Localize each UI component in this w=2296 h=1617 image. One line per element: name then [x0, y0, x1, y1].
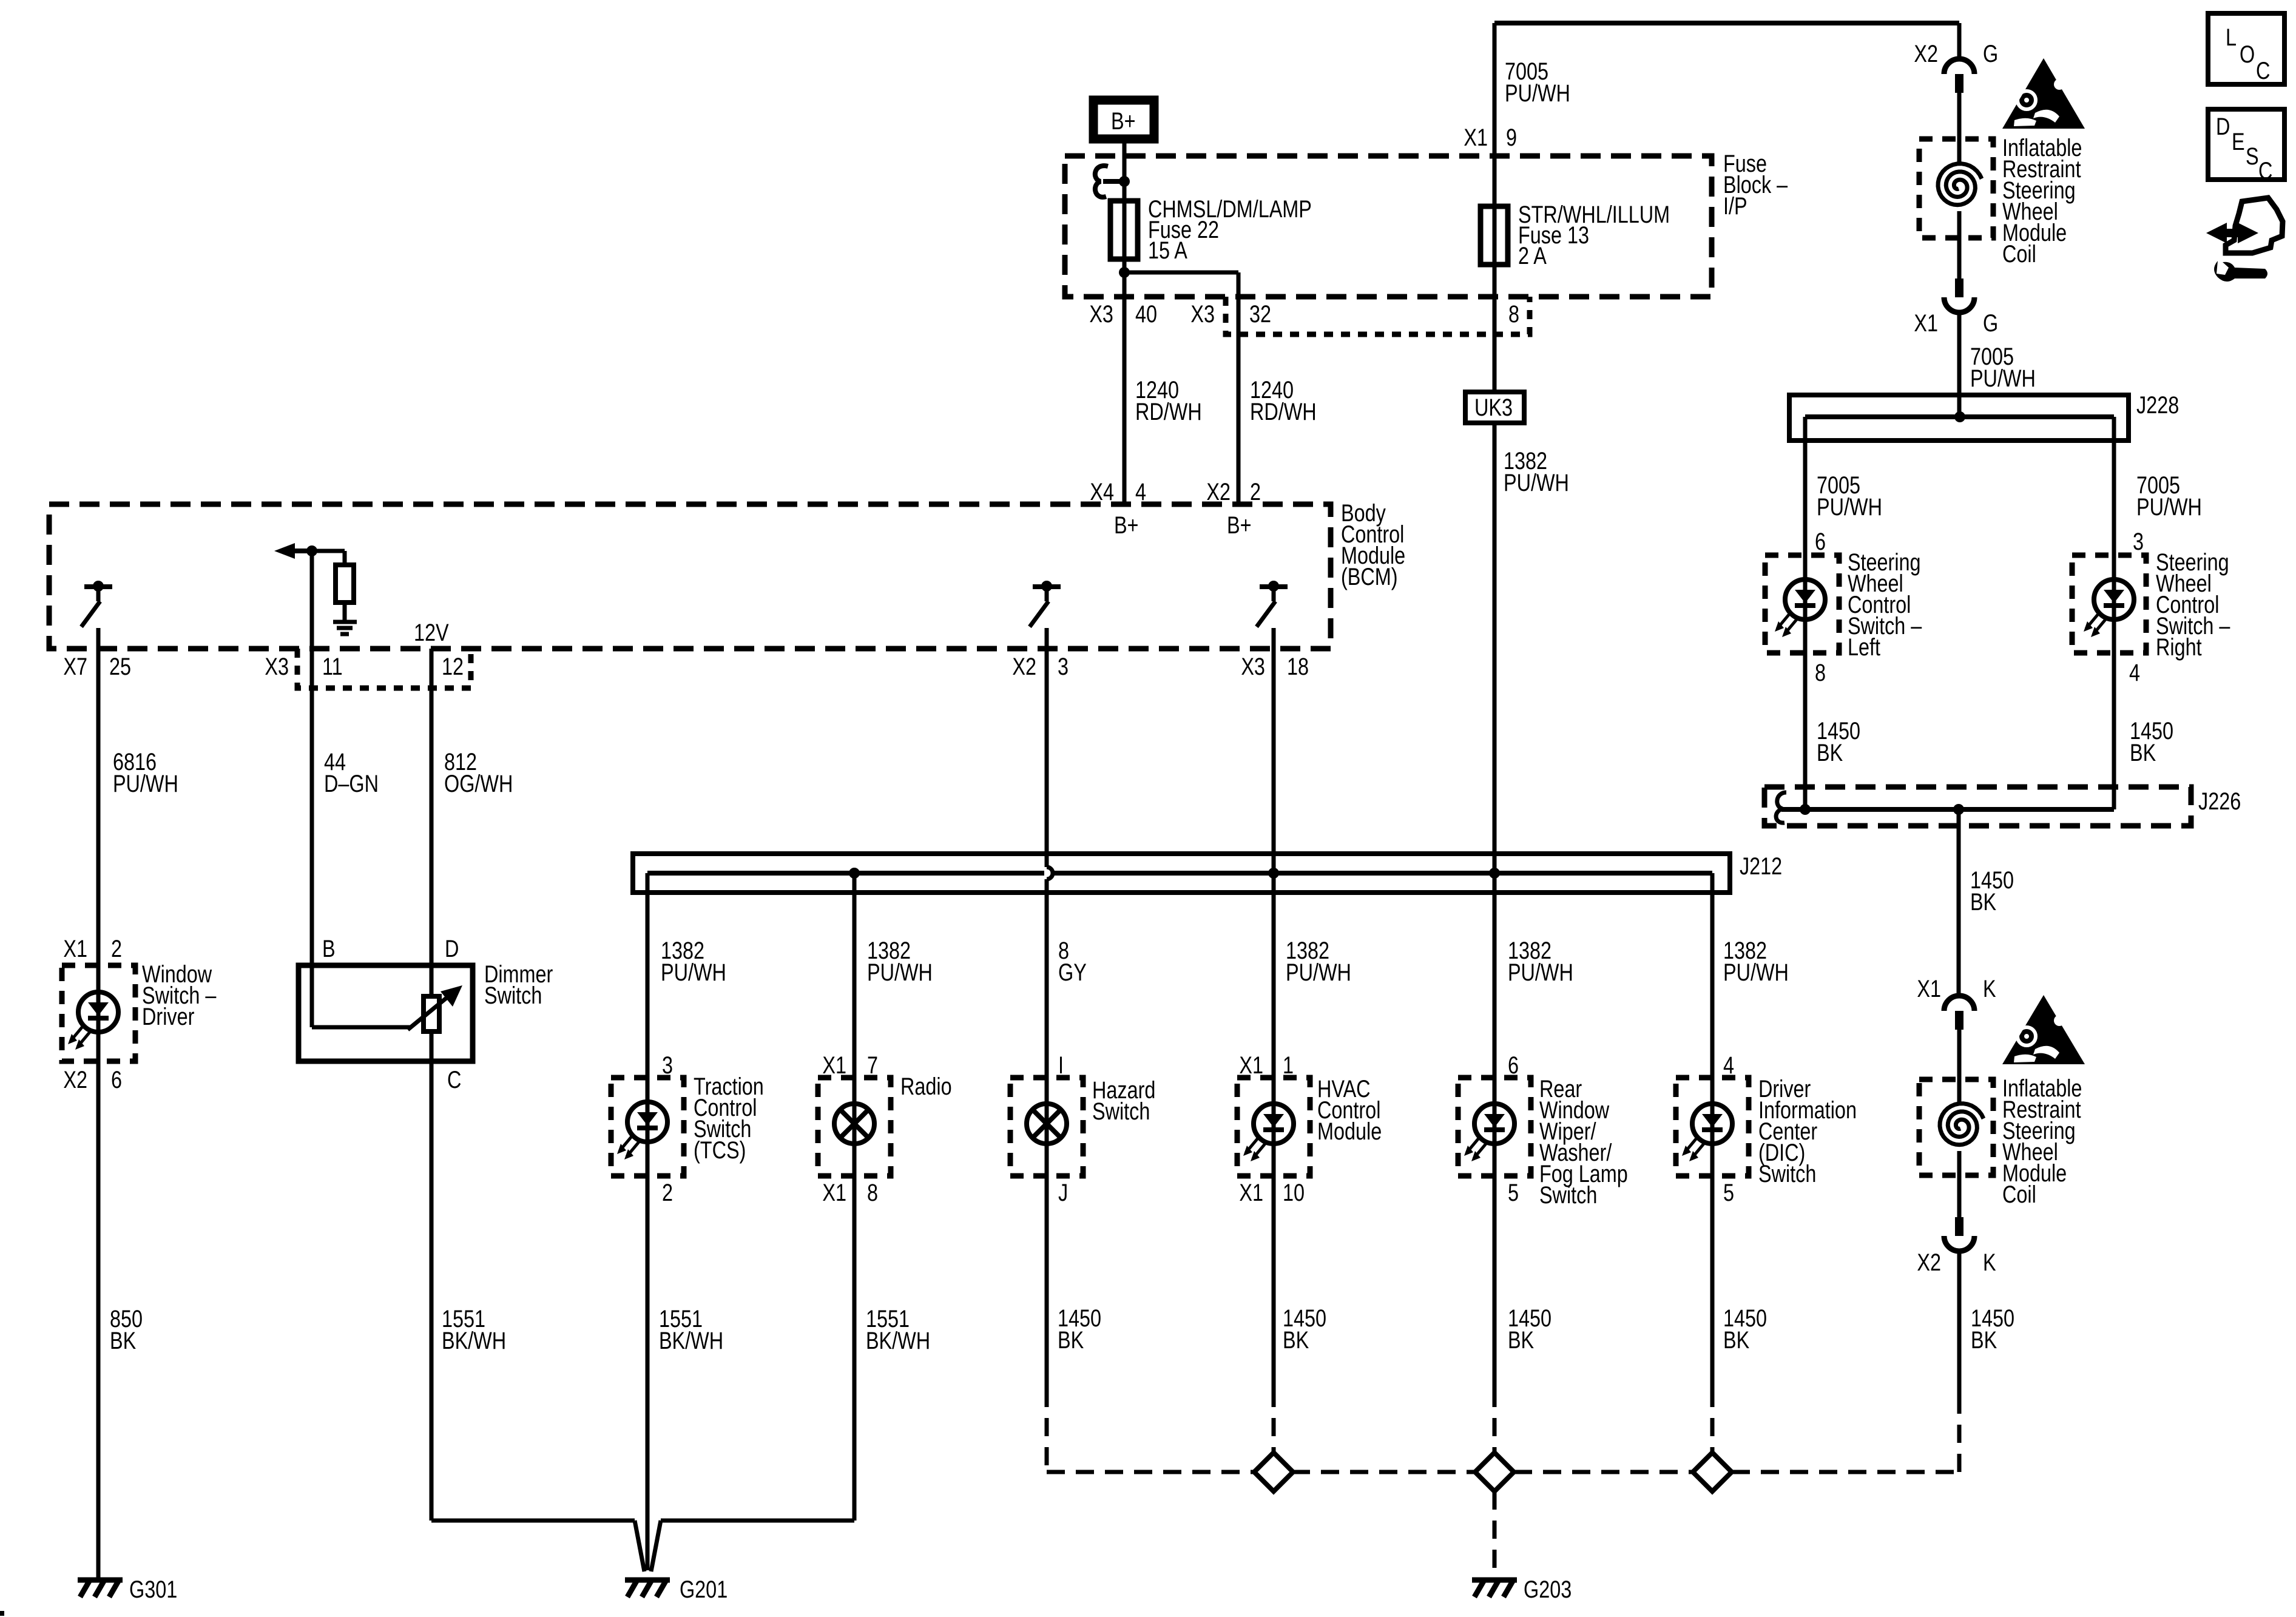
wire 1450 BK coil2 down — [1957, 1251, 1962, 1396]
J226 inner line — [1781, 807, 2114, 812]
wire arrow node to resistor — [312, 551, 345, 565]
label Dimmer Switch — [484, 960, 553, 1009]
pin X3 bcm right — [1241, 653, 1265, 680]
label 7005 PU/WH sw left — [1817, 471, 1882, 521]
wire J228 left drop — [1803, 417, 1808, 555]
coil module dashed box bottom — [1919, 1079, 1993, 1175]
svg-text:I/P: I/P — [1723, 192, 1747, 220]
wire switch X3-18 to edge — [1272, 628, 1276, 649]
svg-text:X1: X1 — [1464, 124, 1488, 151]
svg-text:X1: X1 — [1239, 1052, 1263, 1079]
J228 splice pack outer — [1789, 395, 2129, 441]
svg-text:GY: GY — [1058, 959, 1087, 986]
label 1450 BK sw left — [1817, 717, 1860, 766]
svg-text:12: 12 — [442, 653, 464, 680]
pin 2 above BCM — [1250, 478, 1261, 505]
label 12V — [414, 619, 449, 646]
svg-text:G: G — [1983, 309, 1998, 337]
svg-text:BK: BK — [1817, 739, 1843, 766]
svg-text:10: 10 — [1283, 1179, 1305, 1206]
connector X2-K — [1944, 1217, 1974, 1251]
svg-text:D: D — [445, 935, 459, 962]
svg-text:C: C — [2256, 57, 2270, 84]
label 1450 BK dic — [1723, 1305, 1767, 1354]
pin 4 above BCM — [1135, 478, 1146, 505]
svg-text:4: 4 — [1135, 478, 1146, 505]
svg-text:40: 40 — [1135, 300, 1157, 328]
pin X7 — [63, 653, 87, 680]
pin X1 hvac bot — [1239, 1179, 1263, 1206]
svg-text:PU/WH: PU/WH — [113, 770, 178, 797]
wire resistor to ground — [343, 603, 347, 620]
wire 1551 BK/WH dimmer — [430, 1061, 434, 1521]
svg-text:BK: BK — [1723, 1326, 1749, 1354]
arrow to left in BCM — [274, 543, 312, 559]
wire 1240 RD/WH right — [1250, 376, 1317, 425]
clockspring spiral bottom — [1940, 1104, 1984, 1145]
wire switch X2-3 to edge — [1045, 628, 1049, 649]
label 1382 PU/WH below UK3 — [1504, 447, 1569, 496]
fuse F22 symbol — [1110, 201, 1138, 259]
steering wheel control switch right box — [2072, 555, 2146, 653]
period bottom left — [0, 1611, 4, 1616]
svg-text:PU/WH: PU/WH — [1504, 469, 1569, 496]
connector X2-G — [1944, 59, 1974, 93]
svg-text:X2: X2 — [1012, 653, 1036, 680]
pin K coil2 top — [1983, 975, 1996, 1002]
svg-text:PU/WH: PU/WH — [1817, 493, 1882, 521]
wire hvac drop — [1272, 873, 1276, 1078]
svg-text:8: 8 — [1508, 300, 1519, 328]
label HVAC Control Module — [1317, 1075, 1382, 1145]
label Window Switch Driver — [142, 960, 217, 1030]
hand outline icon — [2226, 198, 2283, 253]
svg-text:3: 3 — [1058, 653, 1069, 680]
svg-text:D: D — [2216, 113, 2230, 140]
ground bus dashed 2 — [1292, 1470, 1475, 1474]
svg-text:2 A: 2 A — [1518, 242, 1547, 269]
label 850 BK — [110, 1305, 143, 1354]
wrench icon — [2214, 261, 2267, 282]
rheostat element dimmer — [424, 965, 439, 1061]
svg-text:(TCS): (TCS) — [694, 1136, 746, 1164]
svg-text:BK: BK — [1058, 1326, 1084, 1354]
clockspring spiral top — [1938, 164, 1982, 205]
label 1382 PU/WH dic — [1723, 937, 1789, 986]
label G301 — [129, 1576, 177, 1603]
svg-text:X1: X1 — [822, 1179, 846, 1206]
wire B+ to fuse block — [1123, 139, 1127, 272]
pin 3 tcs — [662, 1052, 673, 1079]
svg-text:PU/WH: PU/WH — [1970, 365, 2036, 392]
svg-text:BK: BK — [110, 1327, 136, 1354]
svg-text:G301: G301 — [129, 1576, 177, 1603]
DIC box — [1676, 1078, 1749, 1176]
label 1450 BK hvac — [1283, 1305, 1326, 1354]
label G203 — [1524, 1576, 1572, 1603]
label G201 — [680, 1576, 728, 1603]
pin X1 window — [63, 935, 87, 962]
svg-text:15 A: 15 A — [1148, 237, 1187, 264]
wire 7005 top right drop — [1957, 23, 1962, 60]
label 1450 BK coil2 — [1971, 1305, 2014, 1354]
label 7005 PU/WH right — [1970, 343, 2036, 392]
dimmer switch box — [299, 965, 473, 1061]
svg-text:Right: Right — [2156, 633, 2202, 661]
resistor in BCM — [336, 565, 354, 603]
svg-text:X1: X1 — [1239, 1179, 1263, 1206]
steering wheel control switch left box — [1765, 555, 1839, 653]
label 1450 BK hazard — [1058, 1305, 1101, 1354]
pin X2 window — [63, 1066, 87, 1093]
svg-text:I: I — [1058, 1052, 1064, 1079]
wire 6816 PU/WH — [96, 649, 101, 965]
hvac box — [1237, 1078, 1310, 1176]
connector dotted box X3-11/12 — [297, 649, 471, 688]
label Hazard Switch — [1092, 1076, 1155, 1125]
fuse block I/P dashed box — [1065, 156, 1712, 297]
label Rear Window Wiper Washer Fog Lamp Switch — [1539, 1075, 1628, 1209]
svg-text:18: 18 — [1287, 653, 1309, 680]
svg-text:11: 11 — [322, 653, 343, 680]
pin 1 hvac — [1283, 1052, 1294, 1079]
svg-text:K: K — [1983, 1249, 1996, 1276]
svg-text:UK3: UK3 — [1474, 394, 1513, 421]
svg-text:K: K — [1983, 975, 1996, 1002]
pin 8 — [1508, 300, 1519, 328]
label 1382 PU/WH rear — [1508, 937, 1573, 986]
pin 3 sw right — [2133, 528, 2144, 555]
wire TCS drop — [646, 873, 650, 1078]
label CHMSL/DM/LAMP Fuse 22 15A — [1148, 195, 1312, 264]
connector dotted box X3-32/8 — [1226, 297, 1530, 334]
wiper arrow dimmer — [408, 985, 462, 1030]
label Steering Wheel Control Switch Right — [2156, 549, 2230, 661]
pin X1 radio top — [822, 1052, 846, 1079]
svg-text:X7: X7 — [63, 653, 87, 680]
wire 1450 BK hazard — [1045, 1176, 1049, 1389]
LED sw right — [2084, 579, 2134, 637]
svg-text:PU/WH: PU/WH — [1508, 959, 1573, 986]
label 1450 BK coil drop — [1970, 866, 2014, 916]
hop of hazard wire over J212 bus — [1047, 867, 1053, 879]
wire 1450 BK rear — [1493, 1176, 1497, 1389]
wire through window switch — [96, 965, 101, 1061]
svg-text:Coil: Coil — [2002, 240, 2036, 268]
wire 850 BK — [96, 1061, 101, 1578]
svg-text:O: O — [2240, 41, 2255, 68]
svg-text:B+: B+ — [1111, 107, 1136, 135]
svg-text:BK/WH: BK/WH — [866, 1327, 930, 1354]
wire 1450 BK hvac — [1272, 1176, 1276, 1389]
wire through coil2 — [1957, 1079, 1962, 1175]
svg-text:(BCM): (BCM) — [1341, 563, 1398, 590]
pin X2 coil top — [1914, 40, 1938, 67]
LED dic — [1682, 1104, 1732, 1161]
junction dot J226 mid — [1953, 804, 1964, 815]
junction dot J212 radio — [849, 868, 860, 879]
pin G coil top — [1983, 40, 1998, 67]
pin 9 fuse block — [1506, 124, 1517, 151]
pin 4 dic — [1723, 1052, 1734, 1079]
pin 25 — [109, 653, 131, 680]
label 1450 BK rear — [1508, 1305, 1551, 1354]
svg-text:Switch: Switch — [484, 982, 542, 1009]
svg-text:Driver: Driver — [142, 1003, 194, 1030]
pin X4 above BCM — [1090, 478, 1114, 505]
J226 dashed box — [1764, 787, 2191, 826]
pin 8 radio — [867, 1179, 878, 1206]
pin D dimmer — [445, 935, 459, 962]
junction dot below fuse22 — [1119, 267, 1130, 278]
svg-text:5: 5 — [1508, 1179, 1519, 1206]
rear wiper box — [1458, 1078, 1531, 1176]
pin K coil2 bottom — [1983, 1249, 1996, 1276]
svg-text:BK: BK — [1971, 1326, 1997, 1354]
pin G coil bottom label — [1983, 309, 1998, 337]
wire coil to X1G — [1957, 238, 1962, 279]
label 1382 PU/WH hvac — [1286, 937, 1351, 986]
wire UK3 down to J212 — [1493, 423, 1497, 873]
switch X2-3 in BCM — [1030, 581, 1061, 627]
label Radio — [900, 1073, 952, 1100]
label Traction Control Switch TCS — [694, 1073, 764, 1164]
svg-text:25: 25 — [109, 653, 131, 680]
svg-text:3: 3 — [2133, 528, 2144, 555]
svg-text:2: 2 — [1250, 478, 1261, 505]
label B+ left — [1114, 511, 1139, 539]
label 6816 PU/WH — [113, 748, 178, 797]
pin 6 rear — [1508, 1052, 1519, 1079]
pin 8 sw left — [1815, 659, 1826, 686]
svg-text:8: 8 — [867, 1179, 878, 1206]
svg-text:X3: X3 — [265, 653, 289, 680]
wire J228 right drop — [2112, 417, 2116, 555]
pin X1 fuse block — [1464, 124, 1488, 151]
window switch dashed box — [62, 965, 135, 1061]
J228 inner bus line — [1805, 414, 2114, 419]
wire 1450 BK sw right — [2112, 653, 2116, 809]
wire 1450 BK sw left — [1803, 653, 1808, 809]
double arrow icon — [2206, 223, 2258, 243]
pin X1 coil2 — [1917, 975, 1941, 1002]
svg-text:6: 6 — [1508, 1052, 1519, 1079]
wire X1K to coil2 — [1957, 1030, 1962, 1079]
label STR/WHL/ILLUM Fuse 13 2A — [1518, 201, 1670, 269]
svg-text:Switch: Switch — [1092, 1098, 1150, 1125]
label 1551 BK/WH radio — [866, 1305, 930, 1354]
pin 40 — [1135, 300, 1157, 328]
UK3 option box — [1465, 392, 1524, 423]
label 7005 PU/WH top — [1505, 58, 1570, 107]
svg-text:OG/WH: OG/WH — [444, 770, 513, 797]
pin 6 sw left — [1815, 528, 1826, 555]
label 1551 BK/WH dimmer — [442, 1305, 506, 1354]
label B+ right — [1227, 511, 1252, 539]
svg-text:2: 2 — [662, 1179, 673, 1206]
pin 4 sw right — [2129, 659, 2140, 686]
wire coil2 dashed to bus — [1957, 1396, 1962, 1472]
pin 18 bcm — [1287, 653, 1309, 680]
svg-text:BK/WH: BK/WH — [442, 1327, 506, 1354]
wire through coil top — [1957, 139, 1962, 238]
svg-text:PU/WH: PU/WH — [1723, 959, 1789, 986]
airbag warning triangle bottom — [2002, 995, 2085, 1064]
crow foot right — [651, 1521, 661, 1571]
pin 7 radio — [867, 1052, 878, 1079]
label Body Control Module (BCM) — [1341, 499, 1405, 590]
label Inflatable Restraint bottom — [2002, 1075, 2082, 1208]
wire X2-3 down to J212 — [1045, 649, 1049, 867]
label Inflatable Restraint top — [2002, 134, 2082, 268]
svg-text:BK: BK — [1970, 888, 1996, 916]
pin 32 — [1249, 300, 1271, 328]
pin X3 mid — [1190, 300, 1215, 328]
junction dot J212 hvac — [1268, 868, 1279, 879]
svg-text:C: C — [2258, 157, 2272, 184]
svg-text:X3: X3 — [1241, 653, 1265, 680]
wire through sw right — [2112, 555, 2116, 653]
svg-text:G201: G201 — [680, 1576, 728, 1603]
svg-text:1: 1 — [1283, 1052, 1294, 1079]
svg-text:Module: Module — [1317, 1118, 1382, 1145]
label 1551 BK/WH tcs — [659, 1305, 723, 1354]
wire through radio — [853, 1078, 857, 1176]
J212 inner bus line right — [1053, 871, 1712, 876]
LED window switch — [68, 992, 118, 1050]
wire X2G to coil box — [1957, 92, 1962, 139]
svg-text:RD/WH: RD/WH — [1135, 398, 1202, 425]
pin 3 bcm — [1058, 653, 1069, 680]
svg-text:E: E — [2232, 128, 2245, 155]
label 7005 PU/WH sw right — [2136, 471, 2202, 521]
label J228 — [2136, 391, 2179, 419]
svg-text:7: 7 — [867, 1052, 878, 1079]
pin X1 hvac top — [1239, 1052, 1263, 1079]
J212 splice pack outer — [633, 854, 1730, 893]
wire through hvac — [1272, 1078, 1276, 1176]
pin 5 dic — [1723, 1179, 1734, 1206]
wire through sw left — [1803, 555, 1808, 653]
splice diamond hvac — [1254, 1453, 1293, 1491]
label 8 GY hazard — [1058, 937, 1087, 986]
pin X2 bcm — [1012, 653, 1036, 680]
svg-text:BK: BK — [1283, 1326, 1309, 1354]
svg-text:J: J — [1058, 1179, 1068, 1206]
pin 12 — [442, 653, 464, 680]
svg-text:C: C — [447, 1066, 461, 1093]
label Driver Information Center DIC Switch — [1758, 1075, 1857, 1187]
wire 7005 PU/WH top horizontal — [1494, 21, 1959, 25]
svg-text:4: 4 — [2129, 659, 2140, 686]
svg-text:PU/WH: PU/WH — [2136, 493, 2202, 521]
ground bus dashed 1 — [1047, 1470, 1253, 1474]
svg-text:9: 9 — [1506, 124, 1517, 151]
svg-text:Switch: Switch — [1758, 1160, 1816, 1187]
svg-text:12V: 12V — [414, 619, 449, 646]
pin 11 — [322, 653, 343, 680]
svg-text:3: 3 — [662, 1052, 673, 1079]
svg-text:X1: X1 — [1917, 975, 1941, 1002]
wire rear dashed down — [1493, 1389, 1497, 1453]
label 1450 BK sw right — [2130, 717, 2173, 766]
junction dot fuse22 top — [1119, 176, 1130, 187]
wire rear wiper drop — [1493, 873, 1497, 1078]
label 812 OG/WH — [444, 748, 513, 797]
svg-text:X2: X2 — [63, 1066, 87, 1093]
switch X3-18 in BCM — [1257, 581, 1288, 627]
wire 1551 BK/WH radio — [853, 1176, 857, 1521]
wire hazard dashed down — [1045, 1389, 1049, 1472]
wire through tcs — [646, 1078, 650, 1176]
svg-text:B: B — [322, 935, 336, 962]
svg-text:X1: X1 — [1914, 309, 1938, 337]
svg-text:X4: X4 — [1090, 478, 1114, 505]
svg-text:D–GN: D–GN — [324, 770, 379, 797]
pin 5 rear — [1508, 1179, 1519, 1206]
connector X1-K — [1944, 996, 1974, 1030]
wire dic dashed down — [1710, 1389, 1715, 1453]
svg-text:B+: B+ — [1227, 511, 1252, 539]
pin I hazard — [1058, 1052, 1064, 1079]
svg-text:G: G — [1983, 40, 1998, 67]
pin X1 radio bot — [822, 1179, 846, 1206]
traction control switch box — [611, 1078, 684, 1176]
wire 812 OG/WH — [430, 649, 434, 965]
svg-text:Left: Left — [1848, 633, 1880, 661]
wire X1G to J228 — [1957, 312, 1962, 417]
pin 6 window — [111, 1066, 122, 1093]
switch X7-25 in BCM — [81, 581, 112, 627]
svg-text:BK/WH: BK/WH — [659, 1327, 723, 1354]
LED rear — [1464, 1104, 1514, 1161]
svg-text:X2: X2 — [1914, 40, 1938, 67]
wire X3-40 down to BCM X4-4 — [1123, 272, 1127, 504]
pin X3 bcm left — [265, 653, 289, 680]
svg-text:X1: X1 — [822, 1052, 846, 1079]
wire coil2 to X2K — [1957, 1175, 1962, 1217]
pin 10 hvac — [1283, 1179, 1305, 1206]
junction dot J228 — [1954, 411, 1965, 422]
svg-text:X2: X2 — [1206, 478, 1231, 505]
label 44 D-GN — [324, 748, 379, 797]
svg-text:32: 32 — [1249, 300, 1271, 328]
label J226 — [2198, 788, 2241, 815]
svg-text:Switch: Switch — [1539, 1181, 1597, 1209]
svg-text:Radio: Radio — [900, 1073, 952, 1100]
wire 7005 PU/WH vertical from fuse block — [1493, 23, 1497, 297]
svg-text:BK: BK — [2130, 739, 2156, 766]
svg-text:G203: G203 — [1524, 1576, 1572, 1603]
ground G203 — [1472, 1580, 1517, 1597]
pin X2 above BCM — [1206, 478, 1231, 505]
wire merge dimmer-tcs — [431, 1519, 635, 1523]
svg-text:X3: X3 — [1089, 300, 1113, 328]
svg-text:PU/WH: PU/WH — [1286, 959, 1351, 986]
wire fuse22 junction to X2-2 — [1124, 272, 1238, 504]
svg-text:PU/WH: PU/WH — [661, 959, 726, 986]
B+ power box — [1093, 100, 1154, 139]
LOC box — [2208, 13, 2284, 84]
fusible element hook — [1095, 166, 1124, 197]
wire merge tcs-radio — [661, 1519, 854, 1523]
svg-text:J212: J212 — [1740, 852, 1782, 880]
svg-text:X2: X2 — [1917, 1249, 1941, 1276]
svg-text:8: 8 — [1815, 659, 1826, 686]
ground bus dashed 3 — [1514, 1470, 1693, 1474]
svg-text:L: L — [2226, 24, 2237, 51]
ground in BCM — [333, 622, 357, 634]
